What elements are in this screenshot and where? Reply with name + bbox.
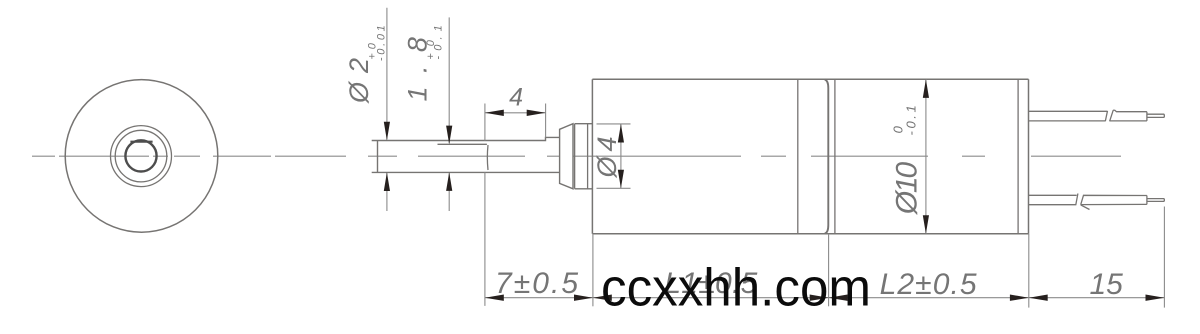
shaft flat end edge bbox=[486, 145, 489, 170]
dimension L1 arrow right bbox=[810, 295, 829, 301]
dimension 1.8 text bbox=[402, 25, 444, 101]
bottom chain extension line at wire end bbox=[1163, 207, 1165, 308]
motor can lip curved edge bbox=[825, 80, 829, 234]
dimension Ø10 text bbox=[890, 105, 923, 215]
bottom wire segment 2 bbox=[1081, 195, 1147, 204]
dimension Ø10 line bbox=[925, 79, 927, 234]
bushing cylinder Ø4 bbox=[575, 124, 593, 189]
bushing cone bbox=[560, 124, 573, 189]
dimension Ø2 line lower bbox=[386, 173, 388, 211]
bottom wire tail tick bbox=[1081, 205, 1090, 210]
dimension 1.8 arrow down bbox=[446, 126, 452, 145]
bottom chain dimension line bbox=[485, 297, 1165, 299]
gearbox joint line bbox=[797, 79, 799, 234]
front view shaft flat chord bbox=[130, 141, 152, 143]
shaft bottom outline bbox=[372, 171, 560, 173]
dimension 1.8 line lower bbox=[448, 173, 450, 211]
top wire break slash bbox=[1105, 111, 1107, 121]
front view bushing circle bbox=[111, 126, 172, 187]
dimension 1.8 arrow up bbox=[446, 172, 452, 191]
svg-text:Ø2: Ø2 bbox=[344, 58, 374, 104]
svg-text:7±0.5: 7±0.5 bbox=[495, 267, 578, 300]
svg-text:-0.01: -0.01 bbox=[375, 25, 387, 61]
top wire stripped tip bbox=[1147, 114, 1164, 117]
dimension 4 extension right bbox=[545, 104, 547, 138]
bushing washer line bbox=[587, 124, 589, 189]
dimension Ø10 arrow up bbox=[923, 79, 929, 98]
shaft flat edge line bbox=[438, 143, 487, 145]
bottom wire segment 1 bbox=[1029, 195, 1077, 204]
dimension L2 arrow right bbox=[1010, 295, 1029, 301]
motor can front line bbox=[834, 79, 836, 234]
dimension Ø4 extension top bbox=[597, 123, 631, 125]
dimension 7±0.5 arrow left bbox=[485, 295, 504, 301]
svg-text:ccxxhh.com: ccxxhh.com bbox=[601, 259, 871, 318]
dimension 4 arrow right bbox=[527, 110, 546, 116]
shaft top outline bbox=[372, 137, 560, 140]
dimension Ø2 text bbox=[344, 25, 388, 104]
centerline main horizontal axis bbox=[32, 155, 1121, 157]
motor right edge bbox=[1028, 79, 1030, 234]
motor end cap line bbox=[1017, 79, 1019, 234]
svg-text:4: 4 bbox=[509, 84, 523, 112]
dimension L1 arrow left bbox=[593, 295, 612, 301]
bottom chain extension line at gearbox face bbox=[592, 234, 594, 306]
gearbox front face bbox=[591, 79, 593, 234]
dimension L2 arrow left bbox=[829, 295, 848, 301]
top wire segment 1 bbox=[1029, 111, 1108, 121]
body bottom outline bbox=[592, 233, 1028, 235]
dimension Ø4 arrow up bbox=[618, 124, 624, 143]
top wire segment 2 bbox=[1110, 110, 1147, 121]
svg-text:Ø10: Ø10 bbox=[891, 161, 924, 215]
body top outline bbox=[592, 78, 1028, 80]
dimension Ø4 extension bottom bbox=[597, 187, 631, 189]
dimension Ø2 arrow down bbox=[384, 122, 390, 141]
dimension Ø4 line bbox=[620, 124, 622, 188]
bottom chain extension line at motor end bbox=[1028, 234, 1030, 308]
svg-text:Ø4: Ø4 bbox=[592, 137, 622, 179]
bottom wire break slash bbox=[1076, 194, 1078, 206]
dimension 4 line bbox=[485, 112, 546, 114]
dimension Ø4 arrow down bbox=[618, 170, 624, 189]
svg-text:L2±0.5: L2±0.5 bbox=[880, 268, 977, 301]
dimension Ø4 text bbox=[592, 137, 622, 179]
dimension 15 arrow right bbox=[1146, 295, 1165, 301]
bottom wire stripped tip bbox=[1147, 199, 1164, 202]
front view cone face circle bbox=[115, 130, 167, 182]
dimension Ø2 arrow up bbox=[384, 172, 390, 191]
dimension 1.8 line upper bbox=[448, 17, 450, 143]
svg-text:15: 15 bbox=[1090, 268, 1124, 301]
bottom chain extension line at gearbox-motor joint bbox=[828, 234, 830, 306]
dimension Ø10 arrow down bbox=[923, 215, 929, 234]
shaft tip edge bbox=[377, 141, 379, 173]
front view shaft D-circle with flat bbox=[125, 140, 156, 171]
dimension 15 arrow left bbox=[1029, 295, 1048, 301]
dimension 4 arrow left bbox=[485, 110, 504, 116]
svg-text:-0.1: -0.1 bbox=[904, 105, 919, 135]
bottom chain extension line at shaft flat bbox=[484, 172, 486, 306]
dimension Ø2 line upper bbox=[386, 8, 388, 140]
front view outer circle (motor body Ø10) bbox=[65, 80, 218, 233]
dimension 7±0.5 arrow right bbox=[574, 295, 593, 301]
dimension 4 extension left bbox=[484, 104, 486, 141]
